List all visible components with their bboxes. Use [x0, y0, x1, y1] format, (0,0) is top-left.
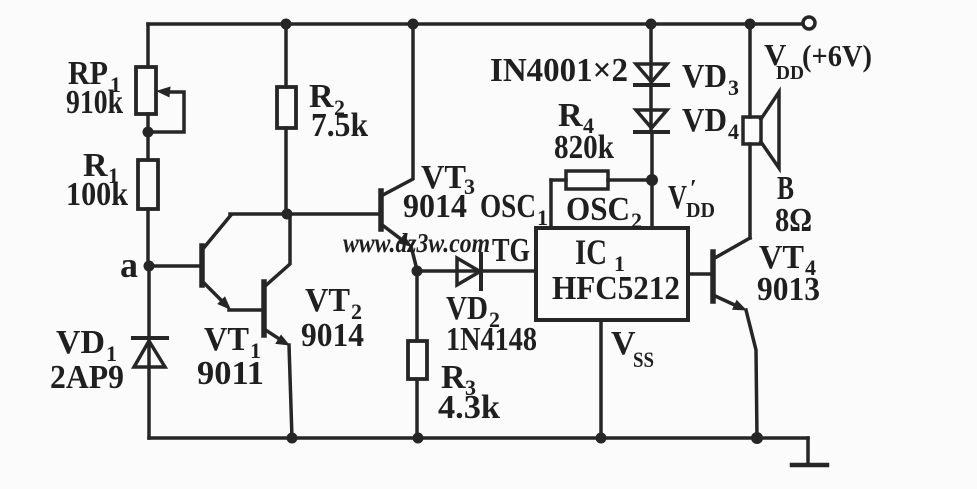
svg-text:9013: 9013 — [757, 271, 820, 308]
diode VD3 (1N4001) — [635, 64, 668, 85]
svg-text:(+6V): (+6V) — [802, 38, 872, 73]
svg-text:3: 3 — [728, 75, 739, 100]
terminal VDD open circle — [803, 17, 815, 29]
svg-text:9011: 9011 — [197, 355, 264, 392]
svg-text:9014: 9014 — [403, 188, 467, 225]
svg-text:VT: VT — [204, 321, 249, 358]
transistor VT2 base bar — [261, 282, 267, 335]
wire R1 to node a — [146, 209, 150, 266]
transistor VT1 base bar — [199, 246, 205, 285]
svg-text:HFC5212: HFC5212 — [552, 270, 680, 307]
node a junction — [144, 261, 155, 272]
pin OSC1 of IC1 — [549, 180, 553, 228]
transistor VT3 collector — [381, 24, 413, 196]
wire VD1 to bottom rail — [147, 367, 151, 438]
transistor VT2 collector — [264, 216, 290, 287]
junction VT3 collector / top rail — [408, 19, 419, 30]
svg-text:1N4148: 1N4148 — [446, 321, 537, 358]
svg-text:910k: 910k — [66, 84, 123, 121]
pin VSS of IC1 — [599, 320, 603, 438]
svg-text:DD: DD — [776, 62, 804, 84]
svg-text:SS: SS — [633, 347, 654, 372]
wire VT1 emitter to VT2 base — [229, 308, 264, 312]
svg-text:TG: TG — [492, 232, 530, 269]
svg-text:4: 4 — [728, 119, 739, 144]
diode VD4 (1N4001) — [635, 110, 668, 132]
wire rail to VD3 — [649, 24, 653, 85]
transistor VT1 collector — [202, 215, 231, 250]
potentiometer RP1 body — [136, 67, 156, 114]
wire VT4 emitter to bottom rail — [746, 310, 757, 438]
pin OSC2/V'DD of IC1 — [650, 132, 654, 228]
svg-text:7.5k: 7.5k — [311, 107, 368, 144]
svg-text:OSC: OSC — [480, 188, 536, 225]
svg-text:2: 2 — [631, 208, 642, 233]
resistor R2 body — [277, 87, 296, 128]
junction VSS / bottom rail — [596, 433, 607, 444]
transistor VT3 base bar — [378, 191, 384, 229]
wire node a to VD1 — [147, 266, 151, 367]
wire rail to R2 — [284, 24, 288, 87]
wire VD3 to VD4 — [649, 85, 653, 132]
junction top rail / VD3 — [646, 19, 657, 30]
svg-text:IN4001×2: IN4001×2 — [490, 52, 628, 89]
wire node a to VT1 base — [149, 264, 202, 268]
junction VT3 emitter / VD2 / R3 — [412, 266, 423, 277]
junction R3 / bottom rail — [413, 433, 424, 444]
junction VT2 emitter / bottom rail — [287, 433, 298, 444]
wire IC1 output to VT4 base — [688, 272, 713, 276]
svg-text:IC: IC — [575, 232, 607, 272]
diode VD2 (1N4148) — [417, 254, 536, 289]
svg-text:100k: 100k — [66, 176, 128, 213]
speaker B body — [743, 92, 779, 168]
resistor R3 body — [408, 271, 427, 438]
svg-text:9014: 9014 — [301, 317, 364, 354]
svg-text:a: a — [120, 245, 138, 285]
wire VT3 emitter to mid node — [411, 246, 417, 270]
svg-text:OSC: OSC — [566, 191, 630, 228]
resistor R4 body — [551, 171, 652, 189]
junction R2 bottom / VT2 collector — [282, 209, 293, 220]
wire speaker to VT4 collector — [748, 144, 752, 238]
wire rail to speaker — [748, 24, 752, 117]
junction RP1 wiper node — [143, 127, 154, 138]
wire mid horizontal (VT1 collector to VT3 base) — [230, 212, 381, 216]
IC U1 HFC5212 box — [536, 228, 688, 320]
diode VD1 (2AP9) — [133, 338, 167, 367]
svg-text:DD: DD — [686, 198, 715, 222]
wire VT2 emitter to bottom rail — [289, 345, 292, 438]
svg-text:VD: VD — [682, 102, 727, 139]
svg-text:V: V — [668, 179, 687, 216]
svg-text:VD: VD — [682, 58, 727, 95]
junction top rail / speaker — [745, 19, 756, 30]
wire R2 to mid node — [284, 128, 288, 214]
svg-text:820k: 820k — [554, 129, 614, 166]
svg-text:VD: VD — [56, 324, 105, 361]
transistor VT4 emitter with arrow — [713, 295, 747, 311]
svg-text:4.3k: 4.3k — [438, 389, 500, 426]
transistor VT3 emitter with arrow — [381, 224, 412, 247]
wire left column top (rail to RP1) — [146, 24, 150, 67]
resistor R1 body — [138, 160, 158, 209]
svg-text:8Ω: 8Ω — [775, 202, 812, 239]
transistor VT4 collector — [713, 238, 750, 259]
ground symbol — [792, 438, 827, 465]
potentiometer RP1 wiper arrow — [151, 87, 184, 133]
svg-text:1: 1 — [537, 205, 548, 230]
junction top rail / R2 — [281, 19, 292, 30]
wire bottom rail — [149, 436, 808, 440]
label RP1 — [50, 37, 872, 426]
svg-text:2AP9: 2AP9 — [50, 359, 124, 396]
svg-text:VT: VT — [305, 282, 350, 319]
junction R4 / VD4 / V'DD pin — [646, 174, 658, 186]
transistor VT2 emitter with arrow — [264, 329, 290, 346]
wire RP1 bottom to R1 — [146, 114, 150, 160]
wire top VDD rail — [148, 22, 802, 26]
junction VT4 emitter / bottom rail — [751, 432, 763, 444]
svg-text:www.dz3w.com: www.dz3w.com — [343, 228, 490, 258]
transistor VT4 base bar — [710, 252, 716, 301]
transistor VT1 emitter with arrow — [202, 281, 231, 310]
